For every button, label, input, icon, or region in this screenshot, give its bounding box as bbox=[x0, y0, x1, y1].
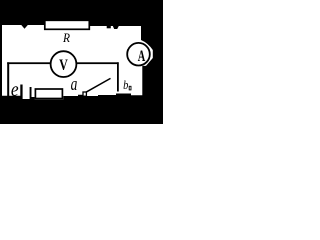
rheostat box bbox=[35, 89, 62, 99]
label R bbox=[62, 30, 70, 45]
current arrow on top wire bbox=[21, 25, 28, 29]
svg-text:R: R bbox=[62, 30, 70, 45]
left border edge wire bbox=[0, 25, 2, 96]
node label b bbox=[123, 79, 128, 92]
node label e bbox=[11, 79, 19, 102]
svg-text:A: A bbox=[138, 47, 146, 65]
wire: voltmeter branch left horizontal bbox=[7, 62, 52, 64]
svg-text:a: a bbox=[71, 73, 78, 95]
wire: voltmeter branch right horizontal bbox=[76, 62, 119, 64]
voltmeter V1 bbox=[51, 51, 77, 77]
svg-text:e: e bbox=[11, 79, 19, 102]
svg-text:b: b bbox=[123, 79, 128, 92]
junction bump 1 on top wire bbox=[107, 26, 111, 28]
label V (voltmeter) bbox=[59, 58, 68, 75]
switch far terminal (near b) bbox=[129, 86, 131, 90]
wire: voltmeter branch left vertical bbox=[7, 62, 9, 96]
node label a bbox=[71, 73, 78, 95]
bottom border bar with battery plate ticks bbox=[0, 85, 131, 125]
ammeter A1 bbox=[127, 43, 150, 66]
switch lever (open) bbox=[86, 78, 111, 92]
top border bar (scan background) bbox=[0, 0, 163, 26]
junction bump 2 (arrowhead) on top wire bbox=[113, 26, 119, 29]
switch hinge terminal bbox=[83, 92, 86, 96]
wire: right vertical to node b bbox=[117, 62, 119, 91]
right border black region bbox=[131, 0, 163, 124]
label A (ammeter) bbox=[138, 47, 146, 65]
svg-text:V: V bbox=[59, 58, 68, 75]
resistor R (box on top wire) bbox=[45, 20, 90, 29]
